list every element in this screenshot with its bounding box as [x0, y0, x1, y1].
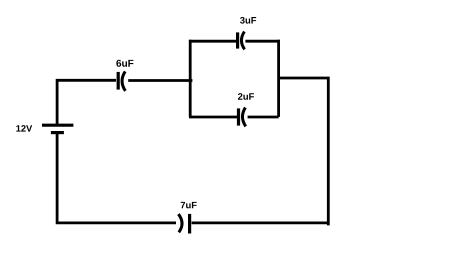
capacitor label 7uF — [181, 202, 197, 209]
wire bottom from C7uF to right vertical — [192, 221, 330, 224]
capacitor C4 7uF left curved plate — [178, 214, 182, 232]
battery V1 12V short plate — [51, 131, 64, 134]
wire box top edge right of C3uF — [245, 40, 280, 43]
wire box bottom edge left of C2uF — [189, 116, 237, 119]
capacitor C2 3uF right curved plate — [241, 32, 244, 50]
wire box bottom edge right of C2uF — [248, 116, 279, 119]
wire box top edge left of C3uF — [189, 40, 236, 43]
capacitor label 2uF — [238, 93, 254, 100]
capacitor C1 6uF right curved plate — [122, 71, 125, 91]
capacitor C2 3uF left plate — [236, 32, 239, 48]
battery V1 12V long plate — [42, 124, 73, 127]
wire box left edge — [189, 40, 192, 117]
wire bottom from battery to C7uF — [57, 134, 176, 223]
battery label 12V — [16, 125, 32, 131]
capacitor C1 6uF left plate — [117, 72, 120, 90]
wire box right edge — [277, 40, 280, 117]
capacitor label 6uF — [116, 60, 133, 67]
capacitor label 3uF — [240, 17, 256, 24]
wire right horizontal and right vertical down — [279, 78, 329, 225]
wire top-left horizontal from battery top to C6uF — [57, 80, 116, 124]
wire from C6uF to parallel box left edge — [128, 79, 192, 82]
capacitor C3 2uF left plate — [237, 108, 240, 125]
capacitor C4 7uF right plate — [188, 214, 191, 234]
capacitor C3 2uF right curved plate — [242, 108, 245, 127]
